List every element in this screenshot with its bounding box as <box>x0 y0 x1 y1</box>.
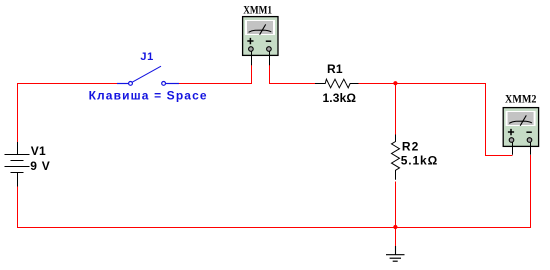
wire: R2 bottom to bottom net <box>395 182 397 247</box>
wire: XMM1 minus terminal down to R1 <box>270 65 316 84</box>
junction node: R1/R2 top <box>393 81 397 85</box>
wire: switch J1 to XMM1 plus terminal <box>179 65 252 84</box>
svg-text:1.3kΩ: 1.3kΩ <box>323 91 357 105</box>
pin stub: XMM2 minus lead <box>530 142 532 155</box>
svg-text:J1: J1 <box>140 51 153 63</box>
wire: node down to R2 <box>395 84 397 135</box>
multimeter XMM2 <box>503 108 538 147</box>
pin stub: XMM2 plus lead <box>512 142 514 155</box>
ground symbol <box>386 246 405 261</box>
junction node: bottom net / ground <box>393 225 397 229</box>
svg-text:R1: R1 <box>327 62 343 76</box>
svg-text:R2: R2 <box>402 140 419 154</box>
svg-text:Клавиша = Space: Клавиша = Space <box>89 89 207 103</box>
svg-text:5.1kΩ: 5.1kΩ <box>401 153 438 167</box>
multimeter XMM1 <box>243 17 278 56</box>
wire: battery minus down to bottom net <box>17 187 19 229</box>
wire: bottom net up to XMM2 minus terminal <box>530 155 532 228</box>
wire: bottom net <box>17 227 531 229</box>
pin stub: XMM1 plus lead <box>251 51 253 65</box>
switch J1 <box>117 66 179 85</box>
resistor R1 <box>315 79 359 88</box>
pin stub: XMM1 minus lead <box>269 51 271 65</box>
battery V1 <box>5 142 30 187</box>
wire: R1 to corner and down to XMM2 plus terminal <box>359 84 513 156</box>
svg-text:XMM2: XMM2 <box>505 91 537 105</box>
wire: battery plus up and right to switch J1 <box>18 84 118 143</box>
svg-text:XMM1: XMM1 <box>243 2 272 16</box>
svg-text:V1: V1 <box>31 144 46 158</box>
resistor R2 <box>392 135 400 180</box>
svg-text:9 V: 9 V <box>30 159 50 173</box>
